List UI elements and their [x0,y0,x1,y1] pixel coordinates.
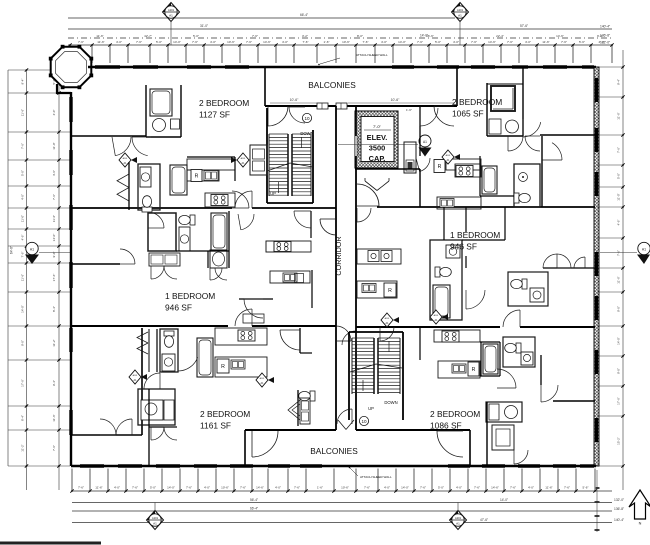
door at right y327 [503,310,520,327]
svg-text:7'-6": 7'-6" [471,40,477,44]
sink square top-left [171,119,180,129]
entry wall top-right [419,106,421,156]
svg-text:A1: A1 [153,522,157,526]
svg-text:7'-6": 7'-6" [507,40,513,44]
svg-text:3'-2": 3'-2" [302,34,308,38]
wall below elevator [355,168,420,170]
svg-text:4'-6": 4'-6" [617,220,621,226]
tub top-left [150,89,172,116]
bath bottom-right walls [503,337,535,367]
door closet right of elevator [420,158,430,172]
svg-text:5'-6": 5'-6" [579,40,585,44]
dimension ticks bottom [71,469,73,492]
door wic mid-left [154,213,165,228]
svg-text:7'-6": 7'-6" [474,486,480,490]
svg-text:4'-0": 4'-0" [21,194,25,200]
bath2 top-right walls [514,164,540,207]
svg-text:2 BEDROOM: 2 BEDROOM [199,98,249,108]
closet doors mid-left a [151,266,164,279]
svg-text:11'-6": 11'-6" [97,40,104,44]
svg-text:7'-6": 7'-6" [240,486,246,490]
marker bath2 top-right [519,173,528,182]
closet wall right-1br [543,267,595,269]
svg-text:64'-8": 64'-8" [10,246,14,254]
svg-text:11'-6": 11'-6" [96,34,103,38]
section marker hall left [237,153,249,167]
vanity bath2 top-left [140,167,151,187]
sink2 island [452,364,466,373]
svg-text:A1: A1 [642,248,646,252]
svg-text:5'-6": 5'-6" [583,486,589,490]
svg-text:5'-0": 5'-0" [21,170,25,176]
svg-text:A1: A1 [30,248,34,252]
door top-right a [523,122,541,137]
svg-text:42'-7": 42'-7" [144,34,152,38]
door at wall y208 [235,191,252,208]
stove bottom-right [442,331,459,342]
svg-text:14'-6": 14'-6" [491,486,499,490]
toilet circle top-right [506,120,519,133]
svg-text:14'-6": 14'-6" [556,34,564,38]
svg-text:7'-6": 7'-6" [52,194,56,200]
dimension lines right [622,50,624,490]
svg-text:17'-6": 17'-6" [52,274,56,282]
stove top-right [456,166,473,177]
svg-text:7'-6": 7'-6" [21,252,25,258]
svg-text:10'-6": 10'-6" [341,486,349,490]
vanity mid-left [179,227,190,251]
svg-text:9'-4": 9'-4" [52,380,56,386]
kitchen top-right counters [446,159,481,170]
bath2 right-1br [508,272,548,306]
svg-text:9'-4": 9'-4" [617,79,621,85]
svg-text:A101: A101 [455,516,462,520]
kitchen mid-left counters [266,241,311,252]
svg-text:ELEV.: ELEV. [367,133,388,142]
svg-text:47'-6": 47'-6" [480,518,488,522]
bifold closet top-left [117,174,129,188]
svg-text:7'-6": 7'-6" [246,40,252,44]
sink2 mid-left [283,273,297,282]
svg-text:1161 SF: 1161 SF [200,421,231,431]
svg-text:4'-0": 4'-0" [528,486,534,490]
walls right-1br [465,207,467,232]
door at wall y326 [235,309,252,326]
balcony top inner wall [265,105,457,107]
kitchen top-left counters [187,159,235,170]
section marker bath right-1 [381,313,393,327]
svg-text:10: 10 [304,116,310,121]
svg-text:4'-0": 4'-0" [453,40,459,44]
stairwell bottom walls [348,332,350,420]
svg-text:11'-6": 11'-6" [52,414,56,421]
svg-text:7'-6": 7'-6" [363,40,369,44]
tub bottom-right [483,344,498,374]
svg-text:11'-6": 11'-6" [542,40,549,44]
svg-text:14'-0": 14'-0" [617,337,621,345]
svg-text:1'-6": 1'-6" [317,486,323,490]
sink2 bottom-left [231,360,245,369]
svg-text:4'-0": 4'-0" [525,40,531,44]
svg-text:5'-0": 5'-0" [193,34,199,38]
section marker top right [459,22,461,45]
svg-text:9'-0": 9'-0" [617,368,621,374]
dimension ticks right [597,66,623,68]
corridor left wall [335,106,337,430]
dimension ticks left [8,69,70,71]
dimension line top 3 [68,37,612,39]
svg-text:11'-6": 11'-6" [21,274,25,281]
svg-text:R: R [195,174,199,180]
tub mid-left [211,213,227,250]
svg-text:2 BEDROOM: 2 BEDROOM [452,97,502,107]
door bath bottom-left [178,357,198,371]
closet doors bottom-left lower [151,427,164,440]
svg-text:1 BEDROOM: 1 BEDROOM [165,291,215,301]
svg-text:9'-4": 9'-4" [21,79,25,85]
shower mid-left [210,250,227,268]
party wall left y326 [71,325,228,327]
corridor door right stair [342,331,356,345]
door closet bottom-right [514,450,528,464]
corridor door right upper [357,184,379,206]
toilet bath2 top-right [514,193,530,203]
svg-text:14'-0": 14'-0" [401,486,409,490]
door bottom-right x541 [541,385,558,402]
section marker top-right [442,150,454,164]
bath right-1br walls [430,240,462,320]
svg-text:14'-0": 14'-0" [500,498,508,502]
sink right-1br [446,245,460,258]
closet doors right-1br [543,254,557,268]
kitchen bottom-right counter [434,330,480,342]
stair bottom door [337,409,352,424]
svg-text:11'-0": 11'-0" [617,193,621,200]
svg-text:10'-6": 10'-6" [221,486,229,490]
svg-text:11'-6": 11'-6" [617,276,621,283]
stove mid-left [274,242,291,252]
svg-text:31'-0": 31'-0" [200,24,208,28]
svg-text:11'-6": 11'-6" [95,486,102,490]
fridge top-left [191,170,202,182]
svg-text:7'-6": 7'-6" [617,147,621,153]
entry walls bottom-left [299,328,301,353]
svg-text:11'-2": 11'-2" [21,444,25,451]
kitchen island bottom-left [215,357,267,377]
section marker bath right-2 [430,310,442,324]
svg-text:7'-6": 7'-6" [364,486,370,490]
vanity bath2 bottom-left [141,400,163,420]
svg-text:136'-8": 136'-8" [614,507,625,511]
dimension line top 4 [68,44,612,46]
svg-text:17'-6": 17'-6" [21,379,25,387]
svg-text:4'-0": 4'-0" [52,110,56,116]
svg-text:140'-4": 140'-4" [600,25,611,29]
svg-text:A1: A1 [423,140,427,144]
svg-text:10'-6": 10'-6" [227,40,235,44]
svg-text:14'-0": 14'-0" [398,40,406,44]
svg-text:132'-0": 132'-0" [614,498,625,502]
svg-text:9'-0": 9'-0" [617,306,621,312]
sink2 right-1br [362,284,376,293]
balcony bottom walls [245,429,336,431]
svg-text:4'-0": 4'-0" [282,40,288,44]
door bedroom mid-left [120,249,135,264]
corridor door left lower [336,326,351,341]
toilet bath1 bottom-left [164,331,174,347]
exterior wall bottom [71,465,596,467]
svg-text:3500: 3500 [369,144,385,153]
sink square top-right [489,119,501,134]
svg-text:4'-0": 4'-0" [204,486,210,490]
toilet bottom-right [505,343,521,353]
svg-text:N: N [639,522,642,526]
svg-text:14'-0": 14'-0" [52,234,56,242]
svg-text:11'-0": 11'-0" [21,215,25,222]
exterior wall top [88,66,596,68]
balcony top thresholds [317,103,328,109]
tub bottom-left [197,338,213,377]
entry door bottom-left [280,330,300,350]
bath2 top-left walls [138,164,160,210]
svg-text:4'-6": 4'-6" [21,235,25,241]
door bath2 bottom-left [144,373,160,389]
title box corner [0,542,101,545]
closet doors mid-left b [210,268,222,280]
closet right of elevator [404,142,416,173]
svg-text:5'-0": 5'-0" [156,40,162,44]
closet wall top-left [128,162,130,210]
svg-text:DOWN: DOWN [300,131,313,136]
svg-text:7'-6": 7'-6" [561,40,567,44]
double doors corridor bottom [338,420,346,430]
exterior wall right [594,67,599,466]
corridor door right lower [357,208,371,222]
svg-text:7'-6": 7'-6" [132,486,138,490]
svg-text:1127 SF: 1127 SF [199,110,230,120]
svg-text:R: R [438,164,442,170]
stove bottom-left [238,330,255,341]
svg-text:10'-6": 10'-6" [342,40,350,44]
hall wall top-left [71,135,146,137]
svg-text:5'-0": 5'-0" [617,173,621,179]
dimension line top 1 [68,17,455,19]
elevator door [355,136,357,156]
svg-text:14'-0": 14'-0" [167,486,175,490]
svg-text:2 BEDROOM: 2 BEDROOM [200,409,250,419]
sink2 top-right [440,199,454,208]
fridge right-1br [384,283,396,297]
closet near top stairs [250,145,267,175]
svg-text:10'-6": 10'-6" [391,98,400,102]
vanity bath1 bottom-left [162,354,175,371]
svg-text:7'-6": 7'-6" [192,40,198,44]
elevator shaft hatched walls [355,111,398,168]
svg-text:22'-4": 22'-4" [496,34,504,38]
svg-text:14'-6": 14'-6" [263,40,271,44]
svg-text:CORRIDOR: CORRIDOR [334,236,343,275]
corridor door left upper [320,219,336,235]
tub walls bottom-right [480,342,482,376]
corridor right wall [355,106,357,430]
balcony top door right [434,106,454,126]
svg-text:7'-0": 7'-0" [373,124,382,129]
stair top door [289,107,305,123]
bedroom wall mid-left [71,263,120,265]
svg-text:R: R [472,367,476,373]
svg-text:A1: A1 [169,14,173,18]
toilet right-1br [435,267,451,277]
section line elevator [338,144,418,146]
svg-text:ATTACH SHEER WALL: ATTACH SHEER WALL [356,53,388,57]
svg-text:11'-6": 11'-6" [21,109,25,116]
svg-text:7'-6": 7'-6" [78,486,84,490]
svg-text:140'-4": 140'-4" [614,518,625,522]
chevron closet bottom-left right [288,400,300,420]
svg-text:7'-6": 7'-6" [52,445,56,451]
svg-text:2 BEDROOM: 2 BEDROOM [430,409,480,419]
wall step below turret [57,84,71,93]
svg-text:4'-0": 4'-0" [381,40,387,44]
dimension line top 2 [68,28,612,30]
svg-text:4'-0": 4'-0" [114,486,120,490]
butterfly doors top-right [508,136,523,151]
svg-text:10'-6": 10'-6" [290,98,299,102]
svg-text:1 BEDROOM: 1 BEDROOM [450,230,500,240]
tub right-1br [433,285,450,318]
stairs top [268,134,270,196]
wall bath3 bottom-right [486,402,488,466]
walls bottom-right unit [419,327,421,360]
svg-text:136'-8": 136'-8" [600,34,611,38]
shelf bath2 bottom-left [164,400,174,420]
svg-text:7'-6": 7'-6" [510,486,516,490]
svg-text:R: R [388,288,392,294]
svg-text:14'-6": 14'-6" [488,40,496,44]
svg-text:1065 SF: 1065 SF [452,109,484,119]
hall door mid-left [244,299,263,318]
fridge bottom-left [217,359,229,373]
svg-text:7'-6": 7'-6" [136,40,142,44]
wall kitchen top-left [187,156,235,158]
svg-text:14'-0": 14'-0" [420,34,428,38]
svg-text:57'-6": 57'-6" [520,24,528,28]
wic mid-left walls [148,213,176,251]
svg-text:7'-6": 7'-6" [186,486,192,490]
shower top-right [491,86,515,111]
balcony bottom side walls [244,430,246,466]
svg-text:17'-6": 17'-6" [617,397,621,405]
section marker hall top-left [119,153,131,167]
sink bottom-right [521,352,533,365]
svg-text:8'-4": 8'-4" [21,415,25,421]
svg-text:A1: A1 [456,522,460,526]
dimension lines left [7,70,9,466]
dimension stub below right wall [596,470,598,532]
svg-text:9'-0": 9'-0" [21,340,25,346]
toilet mid-left [179,215,195,225]
svg-text:7'-6": 7'-6" [617,250,621,256]
svg-text:4'-0": 4'-0" [384,486,390,490]
svg-text:5'-0": 5'-0" [150,486,156,490]
svg-text:7'-6": 7'-6" [303,40,309,44]
svg-text:11'-6": 11'-6" [545,486,552,490]
svg-text:4'-0": 4'-0" [456,486,462,490]
svg-text:BALCONIES: BALCONIES [308,80,356,90]
svg-text:11'-0": 11'-0" [52,142,56,149]
dimension ticks top [69,46,71,64]
section marker near elevator [419,135,431,147]
washer dryer mid-left [149,253,180,266]
svg-text:11'-6": 11'-6" [52,215,56,222]
tub2 top-right [482,166,497,194]
svg-text:4'-0": 4'-0" [275,486,281,490]
toilet bath2 top-left [142,196,152,212]
svg-text:R: R [221,364,225,370]
bath1 top-right walls [486,83,488,136]
doors bedroom bottom-right [497,369,516,388]
svg-text:1086 SF: 1086 SF [430,421,462,431]
svg-text:11'-2": 11'-2" [52,339,56,346]
walls mid-left [228,211,230,268]
section marker bottom right [457,503,459,512]
wall x542 top-right [541,136,543,207]
section marker closet bottom-left [129,370,141,384]
section marker top left [170,22,172,45]
door right of x542 [552,143,562,160]
north arrow [629,490,650,519]
stairwell top walls [266,108,268,203]
entry door top-right [420,108,438,126]
svg-text:1'-6": 1'-6" [324,40,330,44]
svg-text:10: 10 [361,419,367,424]
balcony bottom door left [252,431,278,457]
closet bottom-left right [297,390,299,426]
svg-text:7'-6": 7'-6" [294,486,300,490]
svg-text:7'-6": 7'-6" [78,40,84,44]
kitchen bottom-left counter [215,328,267,345]
sink2 top-left [204,171,218,181]
svg-text:A101: A101 [168,8,175,12]
section marker right [638,242,650,254]
callout top stairs [302,113,311,122]
hall double doors top-left [115,137,131,156]
windows bottom wall [80,464,104,467]
exterior wall left [70,92,72,466]
fridge island [468,362,479,376]
bedroom wall top-right [540,134,595,136]
stove right-1br [368,251,379,262]
door mid-left hall [241,214,254,230]
svg-text:14'-6": 14'-6" [256,486,264,490]
kitchen right-1br counters [357,249,401,264]
svg-text:DOWN: DOWN [384,400,397,405]
bath2 bottom-left walls [138,389,175,425]
balcony top door left [268,106,288,126]
svg-text:946 SF: 946 SF [450,242,477,252]
svg-text:15'-2": 15'-2" [617,437,621,445]
fridge top-right [434,160,445,173]
tub2 top-left [170,165,187,195]
callout bottom stairs [359,416,368,425]
windows right wall [595,78,598,102]
svg-text:8'-4": 8'-4" [52,306,56,312]
sink circle top-left [153,119,166,132]
wall kitchen mid-left [310,211,312,238]
svg-text:14'-0": 14'-0" [21,305,25,313]
svg-text:132'-0": 132'-0" [600,41,611,45]
svg-text:ATTACH SHEER WALL: ATTACH SHEER WALL [360,475,392,479]
